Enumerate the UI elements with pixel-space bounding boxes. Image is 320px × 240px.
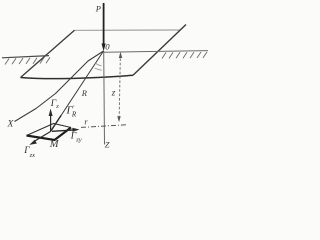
vector Gzx arrowhead — [29, 140, 37, 145]
plane right edge — [133, 25, 186, 76]
svg-text:X: X — [7, 119, 15, 129]
vector Gzy shaft — [52, 130, 76, 132]
vector Gzx shaft — [34, 132, 51, 142]
angle arc at O — [95, 63, 101, 66]
svg-text:z: z — [111, 87, 116, 97]
ground trace right — [104, 51, 209, 53]
vector G'R thick segment along R — [51, 116, 62, 132]
Z axis line — [103, 51, 106, 145]
plate front edges (thick) — [27, 128, 72, 141]
svg-text:R: R — [81, 88, 88, 98]
z dimension line — [119, 54, 120, 117]
svg-text:P: P — [95, 4, 101, 14]
svg-text:Z: Z — [105, 140, 110, 150]
plane top edge (faint) — [75, 29, 181, 31]
vector Gz arrow shaft — [50, 112, 52, 131]
ground trace left — [2, 56, 49, 58]
angle arc 2 at O — [95, 68, 102, 70]
vector Gz arrowhead — [49, 109, 53, 117]
svg-text:M: M — [49, 139, 60, 150]
svg-text:0: 0 — [105, 41, 110, 51]
ground hatching right — [162, 52, 207, 59]
X axis line — [15, 51, 104, 122]
plate back edges — [27, 124, 72, 136]
P axis line — [103, 3, 105, 45]
ground hatching left — [5, 57, 50, 64]
P axis arrowhead — [102, 44, 106, 52]
r dash-dot line — [81, 125, 126, 128]
plane bottom edge — [21, 75, 134, 78]
vector Gzy arrowhead — [72, 128, 79, 132]
z dim top arrowhead — [119, 52, 122, 58]
z dim bottom arrowhead — [117, 116, 120, 122]
plane left edge — [21, 30, 75, 77]
R line from O to M — [51, 51, 104, 132]
